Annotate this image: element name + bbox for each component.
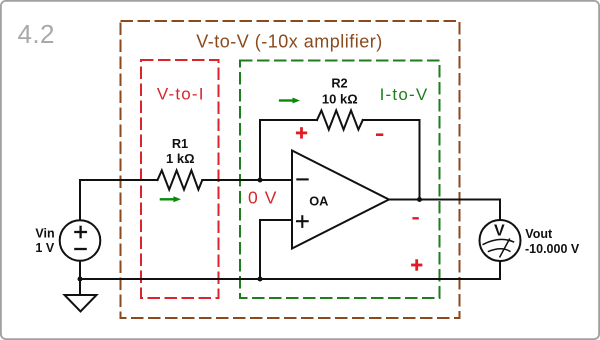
wire feedback right vertical: [419, 120, 421, 200]
dashed region box I-to-V: [240, 61, 440, 299]
svg-text:Vout: Vout: [525, 227, 553, 241]
svg-text:R1: R1: [172, 136, 188, 151]
wire voltmeter top lead: [499, 200, 501, 221]
svg-text:I-to-V: I-to-V: [380, 85, 429, 104]
junction node at output: [417, 197, 422, 202]
wire feedback top to R2: [260, 119, 317, 121]
wire feedback left vertical: [259, 120, 261, 180]
svg-text:V-to-V (-10x amplifier): V-to-V (-10x amplifier): [196, 32, 383, 52]
ground: [65, 295, 97, 312]
wire R1 to op-amp inverting input: [202, 179, 292, 181]
junction node at Vin bottom: [78, 277, 83, 282]
polarity + left of R2: [296, 127, 307, 138]
svg-text:OA: OA: [309, 193, 328, 208]
polarity + at bottom rail: [411, 259, 422, 270]
svg-text:1 kΩ: 1 kΩ: [166, 151, 195, 166]
wire voltmeter bottom lead: [499, 261, 501, 279]
wire bottom rail: [80, 278, 500, 280]
svg-text:1 V: 1 V: [35, 241, 54, 255]
wire Vin top lead: [79, 180, 81, 220]
wire non-inverting input: [260, 220, 292, 279]
polarity - at op-amp output: [412, 217, 418, 219]
dashed region box V-to-I: [141, 60, 219, 298]
resistor R2: [317, 110, 363, 129]
svg-text:-10.000 V: -10.000 V: [525, 242, 580, 256]
polarity - right of R2: [376, 133, 383, 136]
wire Vin to R1: [80, 179, 158, 181]
svg-text:10 kΩ: 10 kΩ: [322, 92, 358, 107]
junction node at inverting input: [258, 178, 263, 183]
wire op-amp output: [389, 199, 500, 201]
current arrow above R2: [279, 98, 300, 104]
svg-text:V-to-I: V-to-I: [157, 85, 205, 104]
junction node at non-inverting bottom: [258, 277, 263, 282]
svg-text:0 V: 0 V: [248, 188, 278, 208]
wire Vin bottom lead to ground: [79, 261, 81, 295]
svg-text:R2: R2: [331, 76, 347, 91]
current arrow under R1: [160, 196, 181, 202]
svg-text:V: V: [494, 223, 505, 240]
resistor R1: [158, 170, 203, 189]
voltmeter Vout: [480, 220, 521, 261]
wire R2 to feedback right corner: [363, 119, 420, 121]
outer dashed region box V-to-V: [121, 21, 460, 318]
op-amp OA: [292, 151, 389, 249]
svg-text:Vin: Vin: [35, 227, 54, 241]
svg-text:4.2: 4.2: [18, 19, 55, 49]
voltage source Vin: [60, 220, 101, 261]
